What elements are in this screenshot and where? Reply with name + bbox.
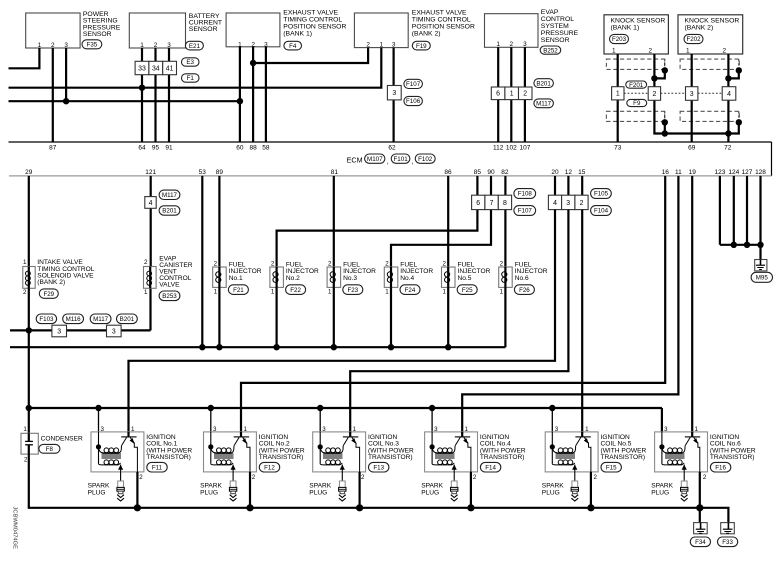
junction F4 pin 1 on ground bus — [237, 98, 243, 104]
junction coil No.5 pin 2 ground bus — [587, 504, 594, 511]
svg-text:4: 4 — [149, 200, 153, 207]
wire fuel injector No.3 pin 1 to bus — [333, 287, 335, 347]
ECM body top edge — [9, 141, 772, 143]
wire F19 pin 3 to ECM pin 62 — [393, 48, 395, 142]
svg-text:1: 1 — [585, 426, 589, 433]
wire coil No.4 pin 2 to ground bus — [470, 472, 472, 508]
svg-text:SPARK: SPARK — [651, 482, 673, 489]
ECM top pin 73 — [614, 145, 622, 152]
ECM bottom pin 29 — [25, 169, 33, 176]
ECM top pin 107 — [519, 145, 530, 152]
svg-text:TRANSISTOR): TRANSISTOR) — [710, 454, 755, 461]
wire supply to coil No.4 pin 3 — [431, 408, 433, 432]
shield drain stub lower bank 2 — [725, 111, 742, 136]
svg-text:F4: F4 — [289, 43, 297, 50]
svg-text:90: 90 — [487, 169, 495, 176]
wire knock bank 2 pin 2 to ECM pin 72 — [727, 54, 729, 142]
connector oval M116 — [63, 314, 84, 324]
svg-text:1: 1 — [616, 91, 620, 98]
svg-text:1: 1 — [442, 289, 446, 296]
wire condenser branch from run y330 — [28, 330, 30, 433]
svg-text:F107: F107 — [518, 208, 533, 215]
wires ECM 20 12 15 through connector boxes — [555, 176, 582, 210]
svg-text:3: 3 — [101, 426, 105, 433]
ECM top pin 60 — [236, 145, 244, 152]
shield drain stub upper bank 1 — [651, 59, 668, 81]
svg-text:F8: F8 — [46, 446, 54, 453]
spark plug No.2 — [229, 472, 236, 501]
svg-text:3: 3 — [112, 328, 116, 335]
svg-text:11: 11 — [675, 169, 682, 176]
svg-text:F201: F201 — [629, 82, 644, 89]
svg-text:2: 2 — [144, 259, 148, 266]
svg-text:20: 20 — [551, 169, 559, 176]
svg-text:2: 2 — [442, 261, 446, 268]
connector box 3 on wire 62 — [387, 86, 401, 100]
label FUEL INJECTOR No.6 — [515, 261, 548, 282]
connector oval F22 — [286, 285, 306, 295]
label SPARK PLUG No.2 — [200, 482, 222, 496]
connector box 8 on wire 82 — [498, 195, 511, 209]
svg-text:73: 73 — [614, 145, 622, 152]
connector box 3 on wire 12 — [562, 195, 575, 209]
ECM bottom pin 53 — [199, 169, 207, 176]
svg-text:PLUG: PLUG — [309, 490, 327, 497]
connector box 6 on wire 112 — [491, 87, 505, 100]
spark plug No.1 — [117, 472, 124, 501]
svg-text:1: 1 — [686, 48, 690, 55]
connector oval F104 — [591, 206, 612, 216]
svg-text:,: , — [387, 159, 389, 166]
svg-text:M117: M117 — [162, 192, 178, 199]
shield drain stub lower bank 1 — [662, 111, 668, 136]
svg-text:123: 123 — [714, 169, 725, 176]
svg-text:No.2: No.2 — [286, 275, 300, 282]
ECM bottom pin 11 — [675, 169, 682, 176]
svg-text:No.6: No.6 — [515, 275, 529, 282]
svg-text:CONTROL: CONTROL — [541, 16, 574, 23]
svg-text:3: 3 — [566, 200, 570, 207]
svg-text:2: 2 — [252, 474, 256, 481]
wire knock bank 1 pin 1 to ECM pin 73 — [617, 54, 619, 142]
svg-text:2: 2 — [510, 41, 514, 48]
junction 124 ground join — [731, 242, 737, 248]
connector oval F11 — [147, 462, 167, 472]
intake valve timing control solenoid valve F29 — [23, 259, 35, 296]
svg-text:2: 2 — [139, 474, 143, 481]
junction injector No.3 on bus — [331, 344, 337, 350]
wire B252 pin 1 to ECM pin 112 — [497, 47, 499, 142]
svg-text:F19: F19 — [416, 43, 427, 50]
wire B252 pin 3 to ECM pin 107 — [524, 47, 526, 142]
svg-text:M107: M107 — [367, 156, 383, 163]
connector box 4 on wire 20 — [548, 195, 561, 209]
connector oval F12 — [259, 462, 279, 472]
spark plug No.6 — [681, 472, 688, 501]
svg-text:107: 107 — [519, 145, 530, 152]
svg-text:6: 6 — [496, 91, 500, 98]
svg-text:EXHAUST VALVE: EXHAUST VALVE — [283, 10, 338, 17]
connector oval F4 — [284, 41, 302, 50]
svg-text:3: 3 — [322, 426, 326, 433]
wire ECM 12 run to ignition coil No.3 — [350, 210, 568, 432]
svg-text:2: 2 — [703, 474, 707, 481]
wire fuel injector No.4 pin 1 to bus — [390, 287, 392, 347]
svg-text:29: 29 — [25, 169, 33, 176]
sensor F35 power steering pressure sensor — [26, 13, 80, 49]
wire coil No.1 pin 2 to ground bus — [136, 472, 138, 508]
label IGNITION COIL No.6 — [710, 434, 756, 461]
ECM bottom pin 90 — [487, 169, 495, 176]
wire E21 pin 1 to ECM pin 64 — [141, 48, 143, 142]
wire coil No.5 pin 2 to ground bus — [590, 472, 592, 508]
wire net run y330 to EVAP canister vent control valve — [10, 288, 151, 333]
sensor F4 exhaust valve timing control position sensor bank 1 — [226, 13, 280, 48]
connector oval B201 — [534, 79, 554, 88]
wire to fuel injector No.5 pin 2 — [447, 176, 449, 267]
wire supply to coil No.3 pin 3 — [319, 408, 321, 432]
svg-text:F12: F12 — [264, 464, 275, 471]
svg-text:1: 1 — [23, 259, 27, 266]
dashed link box3-box4 — [698, 92, 722, 94]
ECM top pin 88 — [249, 145, 257, 152]
ECM top pin 58 — [262, 145, 270, 152]
svg-text:1: 1 — [353, 426, 357, 433]
svg-text:EVAP: EVAP — [541, 9, 559, 16]
svg-text:4: 4 — [553, 200, 557, 207]
svg-text:1: 1 — [131, 426, 135, 433]
svg-text:128: 128 — [755, 169, 766, 176]
connector oval F107 lower — [514, 206, 536, 216]
svg-text:2: 2 — [23, 289, 27, 296]
svg-text:1: 1 — [496, 41, 500, 48]
connector oval F108 — [514, 189, 536, 199]
connector oval F16 — [710, 462, 730, 472]
wire solenoid pin 2 down to vent valve net — [28, 288, 30, 330]
connector oval F202 — [684, 34, 703, 43]
svg-text:86: 86 — [444, 169, 452, 176]
ECM body bottom edge — [9, 175, 772, 177]
junction coil No.3 pin 2 ground bus — [356, 504, 363, 511]
connector oval E21 — [185, 41, 203, 50]
connector box 34 — [149, 61, 163, 74]
label FUEL INJECTOR No.1 — [229, 261, 262, 282]
svg-text:E3: E3 — [186, 59, 194, 66]
connector oval F203 — [610, 34, 629, 43]
ignition coil No.3 with power transistor F13 — [313, 432, 366, 472]
junction supply bus coil No.4 pin 3 — [429, 405, 435, 411]
svg-text:No.1: No.1 — [229, 275, 243, 282]
svg-text:15: 15 — [578, 169, 586, 176]
junction 128 ground join — [757, 242, 763, 248]
label IGNITION COIL No.1 — [146, 434, 192, 461]
connector oval M117 — [534, 99, 554, 108]
connector oval B201 on wire 121 — [159, 206, 180, 215]
svg-text:F34: F34 — [695, 539, 706, 546]
wire fuel injector No.2 pin 1 to bus — [276, 287, 278, 347]
connector oval F9 — [627, 99, 647, 107]
svg-text:SPARK: SPARK — [542, 482, 564, 489]
svg-text:B252: B252 — [543, 47, 558, 54]
connector oval F33 — [718, 537, 738, 547]
connector oval F105 — [591, 189, 612, 199]
ECM bottom pin 89 — [216, 169, 224, 176]
svg-text:PLUG: PLUG — [200, 490, 218, 497]
label SPARK PLUG No.6 — [651, 482, 673, 496]
svg-text:B201: B201 — [536, 80, 551, 87]
ignition supply bus y408 from condenser node — [29, 407, 662, 409]
svg-text:SENSOR: SENSOR — [541, 37, 570, 44]
label EXHAUST VALVE TIMING CONTROL POSITION SENSOR BANK 2 — [412, 10, 475, 38]
connector box 41 — [163, 61, 177, 74]
svg-text:121: 121 — [145, 169, 156, 176]
svg-text:3: 3 — [555, 426, 559, 433]
svg-text:2: 2 — [385, 261, 389, 268]
svg-text:SPARK: SPARK — [309, 482, 331, 489]
coil No.6 pin labels — [664, 426, 707, 481]
spark plug No.5 — [571, 472, 578, 501]
wire F35 pin 1 stub to left — [9, 48, 40, 68]
junction coil No.2 pin 2 ground bus — [246, 504, 253, 511]
svg-text:3: 3 — [213, 426, 217, 433]
junction injector No.5 on bus — [445, 344, 451, 350]
svg-text:EXHAUST VALVE: EXHAUST VALVE — [412, 10, 467, 17]
coil No.1 pin labels — [101, 426, 144, 481]
dashed link box2-box3 — [661, 92, 686, 94]
ECM bottom pin 20 — [551, 169, 559, 176]
connector oval F14 — [480, 462, 500, 472]
svg-text:M117: M117 — [536, 101, 552, 108]
svg-text:F106: F106 — [406, 98, 421, 105]
wire F4 pin 1 to ECM pin 60 — [239, 47, 241, 142]
junction coil No.4 pin 2 ground bus — [467, 504, 474, 511]
wire sensor ground bus to F4 pin 1 — [9, 100, 240, 102]
coil No.2 pin labels — [213, 426, 256, 481]
svg-text:F22: F22 — [290, 287, 301, 294]
ECM top pin 62 — [388, 145, 396, 152]
svg-text:PLUG: PLUG — [542, 490, 560, 497]
svg-text:72: 72 — [724, 145, 732, 152]
svg-text:3: 3 — [392, 90, 396, 97]
svg-text:F1: F1 — [187, 75, 195, 82]
fuel injector No.5 F25 — [442, 261, 456, 296]
ECM bottom pin 81 — [331, 169, 339, 176]
label ECM with connector ovals M107 F101 F102 — [347, 154, 436, 166]
wire fuel injector No.1 pin 1 to bus — [218, 287, 220, 347]
svg-text:82: 82 — [501, 169, 509, 176]
ECM bottom pin 123 — [714, 169, 725, 176]
wire ECM 123 124 127 128 ground join — [720, 176, 761, 260]
connector oval F1 — [182, 74, 200, 82]
wire fuel injector No.6 pin 1 to bus — [504, 287, 506, 347]
wire ECM 121 to EVAP canister vent control valve pin 2 — [150, 176, 152, 267]
sensor knock sensor bank 1 F203 — [604, 15, 668, 55]
junction supply bus coil No.3 pin 3 — [317, 405, 323, 411]
fuel injector No.1 F21 — [213, 261, 227, 296]
wire ground bus to F34 ground — [699, 508, 701, 523]
connector oval F103 — [36, 314, 56, 324]
svg-text:F11: F11 — [152, 464, 163, 471]
svg-text:F107: F107 — [406, 81, 421, 88]
wire ECM 20 run to ignition coil No.1 — [129, 210, 556, 432]
wire ECM 29 to intake valve timing control solenoid valve — [28, 176, 30, 267]
ground M95 — [755, 260, 767, 271]
svg-text:2: 2 — [594, 474, 598, 481]
wire F19 pin 1 long run to left edge — [9, 48, 382, 88]
svg-text:F35: F35 — [87, 42, 98, 49]
svg-text:F21: F21 — [233, 287, 244, 294]
sensor knock sensor bank 2 F202 — [678, 15, 743, 55]
wire supply to coil No.6 pin 3 — [661, 408, 663, 432]
svg-text:2: 2 — [214, 261, 218, 268]
svg-text:F105: F105 — [594, 191, 609, 198]
ECM top pin 91 — [165, 145, 173, 152]
wire ECM 11 run to ignition coil No.4 — [462, 176, 678, 432]
svg-text:2: 2 — [473, 474, 477, 481]
svg-text:62: 62 — [388, 145, 396, 152]
svg-text:53: 53 — [199, 169, 207, 176]
injector ground bus y347 — [10, 346, 505, 348]
connector oval F29 — [39, 289, 58, 298]
svg-text:1: 1 — [510, 91, 514, 98]
svg-text:F33: F33 — [722, 539, 733, 546]
wire to fuel injector No.3 pin 2 — [333, 176, 335, 267]
junction injector No.2 on bus — [273, 344, 279, 350]
ECM bottom pin 82 — [501, 169, 509, 176]
svg-text:1: 1 — [271, 289, 275, 296]
label CONDENSER — [41, 436, 83, 443]
svg-text:2: 2 — [652, 91, 656, 98]
connector oval M117 mid — [90, 314, 111, 324]
svg-text:,: , — [412, 159, 414, 166]
label POWER STEERING PRESSURE SENSOR — [83, 11, 121, 38]
connector box 2 on wire 107 — [519, 87, 533, 100]
label SPARK PLUG No.3 — [309, 482, 331, 496]
ECM top pin 112 — [493, 145, 504, 152]
connector box 6 on wire 85 — [472, 195, 485, 209]
svg-text:F102: F102 — [418, 156, 433, 163]
junction injector No.1 on bus — [216, 344, 222, 350]
connector oval F201 — [626, 81, 647, 89]
ECM top pin 64 — [138, 145, 146, 152]
svg-text:1: 1 — [214, 289, 218, 296]
svg-text:112: 112 — [493, 145, 504, 152]
wire F4 pin 3 to ECM pin 58 — [265, 47, 267, 142]
svg-text:SYSTEM: SYSTEM — [541, 23, 569, 30]
ignition coil No.5 with power transistor F15 — [545, 432, 598, 472]
svg-text:2: 2 — [722, 48, 726, 55]
svg-text:12: 12 — [565, 169, 573, 176]
junction 127 ground join — [744, 242, 750, 248]
connector oval F15 — [601, 462, 621, 472]
svg-text:1: 1 — [243, 426, 247, 433]
svg-text:TRANSISTOR): TRANSISTOR) — [259, 454, 304, 461]
wire to fuel injector No.2 pin 2 — [277, 210, 478, 267]
svg-text:4: 4 — [727, 91, 731, 98]
svg-text:1: 1 — [695, 426, 699, 433]
label IGNITION COIL No.2 — [259, 434, 305, 461]
wire F19 pin 2 to F4 pin 2 net — [253, 48, 368, 63]
svg-text:M117: M117 — [93, 316, 109, 323]
svg-text:No.4: No.4 — [400, 275, 414, 282]
label FUEL INJECTOR No.3 — [343, 261, 376, 282]
svg-text:(BANK 2): (BANK 2) — [412, 31, 441, 38]
svg-text:2: 2 — [523, 91, 527, 98]
svg-text:2: 2 — [24, 457, 28, 464]
condenser F8 — [21, 426, 38, 463]
wire knock bank 2 pin 1 to ECM pin 69 — [691, 54, 693, 142]
svg-text:CONDENSER: CONDENSER — [41, 436, 83, 443]
connector box 33 — [135, 61, 149, 74]
svg-text:41: 41 — [166, 65, 174, 72]
svg-text:JCBWM0474GE: JCBWM0474GE — [12, 507, 18, 550]
ECM bottom pin 124 — [728, 169, 739, 176]
sensor F19 exhaust valve timing control position sensor bank 2 — [354, 13, 408, 48]
svg-text:F14: F14 — [485, 464, 496, 471]
svg-text:B201: B201 — [120, 316, 135, 323]
connector oval F24 — [400, 285, 420, 295]
svg-text:B253: B253 — [162, 293, 177, 300]
connector oval F19 — [412, 41, 430, 50]
spark plug No.4 — [451, 472, 458, 501]
svg-text:PLUG: PLUG — [421, 490, 439, 497]
svg-text:7: 7 — [490, 200, 494, 207]
svg-text:85: 85 — [474, 169, 482, 176]
svg-text:F108: F108 — [518, 191, 533, 198]
junction F35 pin 3 on ground bus — [63, 98, 69, 104]
svg-text:2: 2 — [328, 261, 332, 268]
svg-text:1: 1 — [328, 289, 332, 296]
label FUEL INJECTOR No.4 — [400, 261, 433, 282]
dashed link box1-box2 — [624, 92, 648, 94]
coil No.5 pin labels — [555, 426, 598, 481]
wire fuel injector No.5 pin 1 to bus — [447, 287, 449, 347]
connector oval B253 — [159, 291, 180, 301]
junction injector No.4 on bus — [388, 344, 394, 350]
connector oval F8 — [39, 444, 60, 453]
connector oval B252 — [540, 46, 561, 54]
ignition coil No.2 with power transistor F12 — [204, 432, 257, 472]
ground F34 — [694, 523, 708, 534]
ground F33 — [721, 523, 735, 534]
svg-text:TIMING CONTROL: TIMING CONTROL — [283, 17, 342, 24]
ECM bottom pin 86 — [444, 169, 452, 176]
wire to fuel injector No.4 pin 2 — [391, 210, 491, 267]
svg-text:1: 1 — [465, 426, 469, 433]
svg-text:(BANK 1): (BANK 1) — [611, 24, 640, 31]
wire to fuel injector No.1 pin 2 — [218, 176, 220, 267]
ECM top pin 69 — [688, 145, 696, 152]
svg-text:(BANK 2): (BANK 2) — [37, 279, 65, 286]
wire E21 pin 3 to ECM pin 91 — [168, 48, 170, 142]
svg-text:F101: F101 — [394, 156, 409, 163]
label IGNITION COIL No.5 — [601, 434, 647, 461]
junction coil No.6 pin 2 ground bus — [696, 504, 703, 511]
connector oval F25 — [457, 285, 477, 295]
ECM bottom pin 12 — [565, 169, 573, 176]
svg-text:F9: F9 — [633, 100, 641, 107]
connector oval F23 — [343, 285, 363, 295]
svg-text:F202: F202 — [686, 36, 701, 43]
svg-text:3: 3 — [57, 328, 61, 335]
svg-text:1: 1 — [23, 426, 27, 433]
svg-text:2: 2 — [648, 48, 652, 55]
ECM bottom pin 15 — [578, 169, 586, 176]
wire ECM 15 to ignition coil No.5 — [581, 210, 583, 432]
sensor E21 battery current sensor — [129, 13, 185, 49]
svg-text:3: 3 — [664, 426, 668, 433]
svg-text:3: 3 — [690, 91, 694, 98]
